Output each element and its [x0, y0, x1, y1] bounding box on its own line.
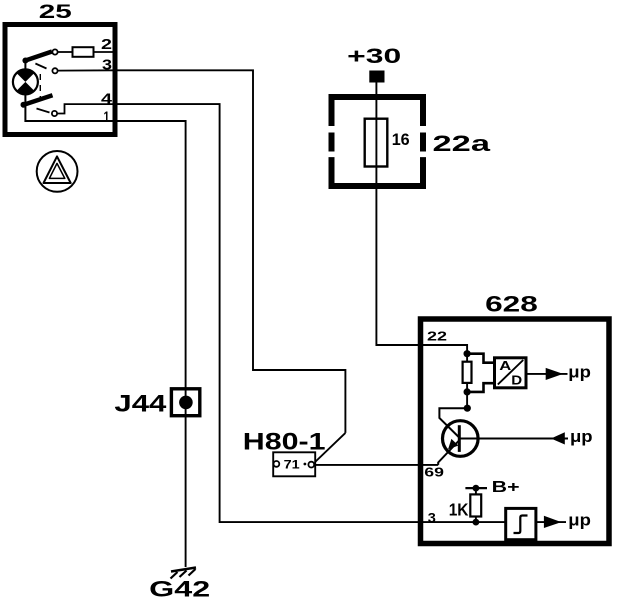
- svg-text:1K: 1K: [449, 499, 469, 519]
- junction dot collector: [464, 405, 471, 412]
- fuse box 22a: left edge dashed: [329, 94, 335, 189]
- A/D converter box: [495, 358, 527, 388]
- connector pin circle left: [274, 461, 280, 467]
- terminal square +30: [369, 71, 384, 83]
- svg-text:16: 16: [392, 130, 410, 149]
- svg-text:22: 22: [427, 329, 447, 344]
- wire: diagonal into H80-1: [314, 433, 346, 464]
- hazard warning symbol circle: [37, 151, 78, 192]
- base output line to up: [459, 438, 568, 440]
- svg-text:μp: μp: [568, 364, 591, 382]
- transistor emitter: [438, 441, 458, 465]
- junction dot bottom: [464, 388, 471, 395]
- junction dot pin3 wire: [473, 519, 480, 526]
- contact circle pin3: [52, 68, 57, 73]
- hazard triangle outer: [44, 156, 71, 183]
- resistor in 25: [73, 47, 94, 57]
- wire B+ to pin3 wire: [475, 488, 477, 522]
- transistor collector path: [439, 408, 467, 437]
- wire: pin3 of 25 to H80-1: [115, 70, 345, 433]
- fuse box 22a: bottom edge: [329, 183, 427, 189]
- wire contact L to pin4: [57, 104, 115, 113]
- switch arm lower: [22, 95, 53, 105]
- switch unit box 25: [5, 25, 115, 135]
- B+ tap line: [465, 487, 487, 489]
- control unit box 628: [421, 319, 610, 544]
- svg-text:A: A: [499, 358, 511, 373]
- svg-text:25: 25: [39, 2, 73, 23]
- switch pivot lower: [21, 102, 27, 108]
- hazard triangle inner: [49, 163, 64, 178]
- switch linkage dashes: [35, 64, 46, 69]
- svg-text:μp: μp: [568, 511, 591, 529]
- B+ junction dot: [473, 485, 480, 492]
- svg-text:628: 628: [485, 292, 538, 317]
- step box output arrow: [536, 521, 566, 523]
- svg-text:μp: μp: [570, 428, 593, 446]
- J44 wire through: [185, 389, 187, 416]
- svg-text:+30: +30: [347, 43, 401, 68]
- svg-text:D: D: [511, 373, 522, 388]
- fuse 16: [365, 119, 388, 167]
- wire: pin4 of 25 to pin3 of 628: [115, 104, 506, 522]
- svg-text:B+: B+: [492, 479, 520, 496]
- J44 dot: [179, 396, 193, 410]
- threshold (step) box: [506, 508, 536, 539]
- switch pivot upper: [22, 58, 28, 64]
- connector H80-1 box: [273, 452, 315, 476]
- svg-text:4: 4: [101, 91, 112, 107]
- svg-text:3: 3: [102, 58, 112, 74]
- contact circle pin1 side: [52, 111, 57, 116]
- wire resistor to pin2: [94, 51, 116, 53]
- wire: pin1 of 25 to ground G42: [115, 121, 186, 567]
- svg-text:69: 69: [424, 464, 444, 479]
- svg-text:3: 3: [428, 510, 436, 526]
- contact circle pin2: [52, 49, 57, 54]
- svg-text:J44: J44: [114, 391, 167, 418]
- resistor 1K: [470, 494, 481, 516]
- fuse box 22a: right edge dashed: [420, 94, 426, 189]
- lamp wire bottom to pin1: [25, 94, 115, 121]
- connector J44 box: [171, 389, 199, 416]
- wire: resistor branch vertical: [466, 352, 468, 408]
- svg-text:1: 1: [104, 109, 110, 125]
- wire contact to resistor: [58, 51, 73, 53]
- connector middot: [304, 463, 307, 466]
- wire: +30 through fuse to pin22 of 628: [376, 82, 467, 352]
- transistor base bar: [458, 425, 461, 452]
- jog to A/D top: [467, 354, 493, 363]
- step glyph: [514, 516, 528, 534]
- ground symbol G42: [171, 568, 196, 572]
- lamp L (indicator light): [13, 69, 38, 94]
- svg-text:G42: G42: [149, 577, 210, 602]
- svg-text:2: 2: [101, 37, 112, 53]
- junction dot top: [464, 350, 471, 357]
- resistor in 628: [463, 362, 472, 383]
- fuse box 22a: top edge: [329, 94, 427, 100]
- svg-text:71: 71: [284, 458, 300, 472]
- switch arm upper: [24, 52, 52, 62]
- A/D output arrow: [526, 373, 567, 375]
- connector pin circle right: [308, 462, 314, 468]
- transistor circle: [443, 421, 479, 457]
- lamp wire top: [24, 60, 26, 70]
- wire: H80-1 to pin 69 of 628: [314, 464, 438, 466]
- svg-text:22a: 22a: [433, 131, 492, 156]
- jog to A/D bottom: [467, 383, 493, 392]
